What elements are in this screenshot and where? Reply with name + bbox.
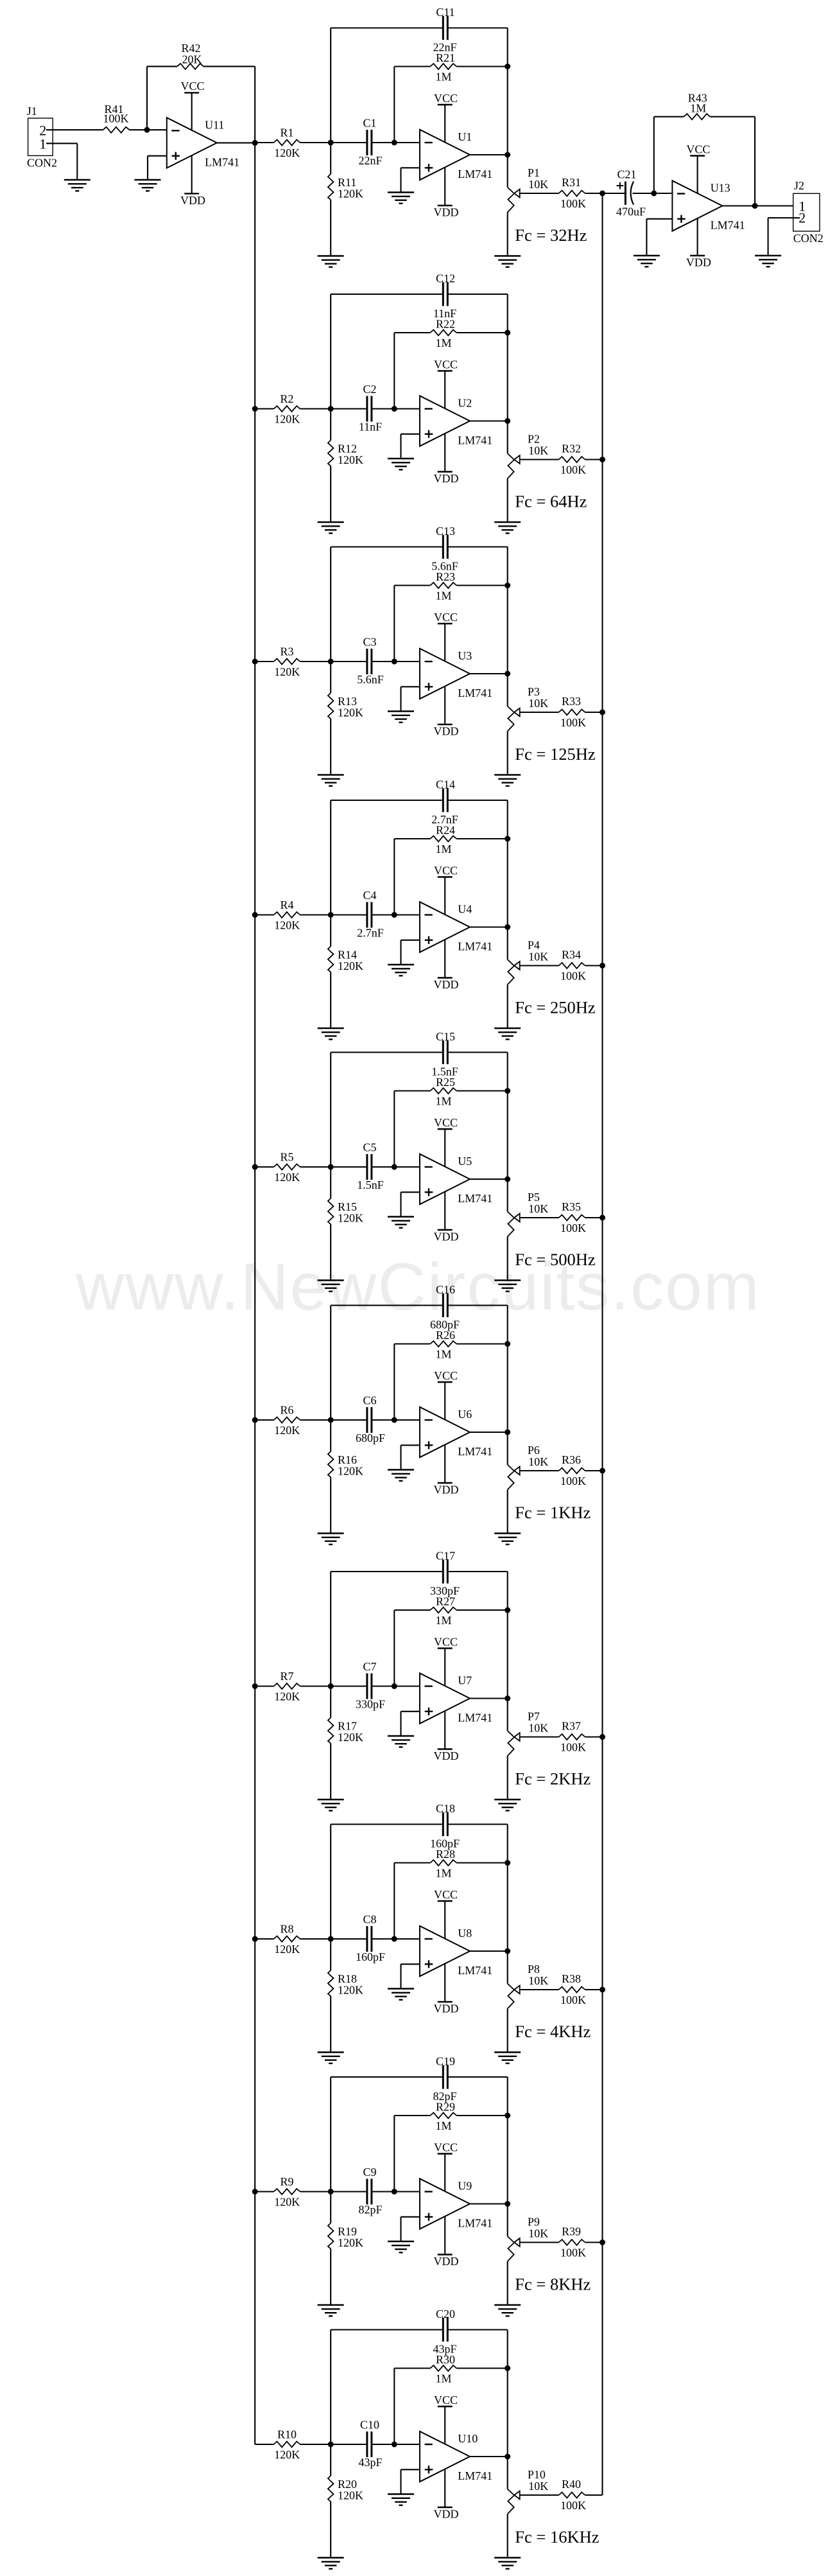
resistor R35 100K: [559, 1200, 587, 1234]
wire wiper row: [520, 2494, 603, 2496]
svg-text:10K: 10K: [528, 2227, 548, 2240]
VCC symbol: [434, 1116, 458, 1167]
node band 7 output: [505, 1695, 510, 1701]
wire band 6 input row: [255, 1419, 420, 1421]
svg-text:R36: R36: [562, 1453, 581, 1466]
svg-text:C17: C17: [436, 1550, 455, 1563]
VCC symbol: [434, 358, 458, 408]
wire left distribution bus: [254, 143, 255, 2444]
wire output: [470, 673, 508, 674]
svg-text:LM741: LM741: [458, 687, 492, 699]
ground (R17): [318, 1800, 344, 1810]
svg-text:VDD: VDD: [434, 1484, 459, 1496]
op-amp U6: [420, 1407, 492, 1458]
potentiometer P7 10K: [508, 1699, 549, 1800]
svg-text:VDD: VDD: [434, 472, 459, 485]
capacitor C19 82pF: [433, 2055, 456, 2103]
svg-text:100K: 100K: [560, 970, 586, 983]
resistor R38 100K: [559, 1972, 587, 2006]
resistor R11 120K: [328, 143, 363, 256]
svg-text:C18: C18: [436, 1802, 455, 1815]
connector J2: [793, 179, 824, 245]
svg-text:120K: 120K: [338, 1212, 363, 1225]
node band 10 inverting input: [392, 2442, 397, 2448]
node left bus tap band 3: [252, 659, 258, 665]
wire R42 feedback loop: [147, 66, 255, 143]
svg-text:1M: 1M: [435, 1095, 451, 1108]
svg-text:1M: 1M: [435, 1348, 451, 1361]
resistor R42 20K: [177, 42, 203, 69]
VCC symbol: [434, 2141, 458, 2191]
svg-text:1M: 1M: [435, 590, 451, 602]
op-amp U10: [420, 2431, 492, 2482]
node band 7 inverting input: [392, 1683, 397, 1689]
svg-text:330pF: 330pF: [356, 1698, 385, 1711]
svg-text:5.6nF: 5.6nF: [357, 673, 384, 686]
resistor R7 120K: [274, 1670, 300, 1703]
ground (U8 + input): [388, 1989, 414, 2000]
ground (R19): [318, 2305, 344, 2316]
resistor R39 100K: [559, 2225, 587, 2259]
wire right summing bus: [601, 193, 603, 2495]
resistor R26 1M: [430, 1329, 456, 1361]
svg-text:100K: 100K: [560, 1993, 586, 2006]
svg-text:U2: U2: [458, 397, 472, 410]
wire inverting node to feedback row: [393, 2369, 395, 2445]
wire wiper row: [520, 1470, 603, 1471]
ground (P7): [494, 1800, 521, 1810]
capacitor C7 330pF: [356, 1660, 385, 1711]
wire loop top: [331, 2330, 508, 2457]
connector J1: [27, 105, 57, 170]
wire output: [470, 1950, 508, 1952]
svg-text:VDD: VDD: [434, 1749, 459, 1762]
ground (J1): [64, 180, 91, 191]
svg-text:VCC: VCC: [180, 80, 204, 92]
svg-text:VCC: VCC: [434, 1888, 458, 1901]
svg-text:R37: R37: [562, 1720, 581, 1733]
svg-text:LM741: LM741: [458, 168, 492, 180]
svg-text:R6: R6: [280, 1404, 293, 1417]
wire inverting node to feedback row: [393, 333, 395, 409]
node band 5 output: [505, 1177, 510, 1182]
svg-text:100K: 100K: [560, 716, 586, 729]
svg-text:C1: C1: [363, 117, 376, 130]
node band 10 input junction: [328, 2442, 334, 2448]
svg-text:10K: 10K: [528, 2480, 548, 2493]
svg-text:U1: U1: [458, 130, 472, 143]
capacitor C1 22nF: [358, 117, 382, 168]
ground (P8): [494, 2053, 521, 2063]
potentiometer P5 10K: [508, 1179, 549, 1281]
node left bus tap band 7: [252, 1683, 258, 1689]
wire output: [470, 1697, 508, 1699]
ground (U7 + input): [388, 1736, 414, 1747]
node summing bus junction 7: [600, 1734, 605, 1740]
ground (P9): [494, 2305, 521, 2316]
node feedback right: [505, 1088, 510, 1094]
svg-text:C10: C10: [360, 2419, 379, 2431]
svg-text:43pF: 43pF: [358, 2456, 382, 2469]
wire band 10 input row: [255, 2444, 420, 2445]
node band 7 input junction: [328, 1683, 334, 1689]
svg-text:U9: U9: [458, 2180, 472, 2193]
node feedback right: [505, 1608, 510, 1613]
svg-text:VDD: VDD: [434, 1231, 459, 1243]
svg-text:P9: P9: [528, 2216, 540, 2229]
VDD symbol: [434, 434, 459, 485]
wire R41 to U11: [130, 129, 167, 130]
potentiometer P6 10K: [508, 1432, 549, 1534]
svg-text:100K: 100K: [560, 464, 586, 477]
svg-text:22nF: 22nF: [358, 154, 382, 167]
wire feedback row: [394, 2367, 507, 2369]
svg-text:J1: J1: [27, 105, 37, 118]
node band 3 inverting input: [392, 659, 397, 665]
wire wiper row: [520, 712, 603, 713]
svg-text:P4: P4: [528, 939, 540, 952]
wire U11 output: [217, 142, 255, 143]
svg-text:2.7nF: 2.7nF: [357, 927, 384, 940]
resistor R40 100K: [559, 2478, 587, 2512]
capacitor C11 22nF: [433, 6, 456, 54]
resistor R21 1M: [430, 51, 456, 83]
capacitor C6 680pF: [356, 1394, 385, 1445]
wire band 2 input row: [255, 408, 420, 409]
svg-text:R8: R8: [280, 1923, 293, 1936]
wire C21 to U13: [654, 193, 673, 194]
svg-text:Fc = 16KHz: Fc = 16KHz: [515, 2527, 599, 2546]
wire inverting node to feedback row: [393, 586, 395, 662]
capacitor C8 160pF: [356, 1913, 385, 1964]
node feedback right: [505, 583, 510, 588]
svg-text:C6: C6: [363, 1394, 376, 1407]
svg-text:11nF: 11nF: [433, 307, 456, 320]
svg-text:VDD: VDD: [434, 978, 459, 991]
node band 3 output: [505, 671, 510, 677]
svg-text:120K: 120K: [274, 1424, 300, 1437]
svg-text:C20: C20: [436, 2308, 455, 2320]
wire non-inverting input to ground: [401, 1964, 420, 1988]
svg-text:82pF: 82pF: [358, 2204, 382, 2216]
VCC symbol: [434, 611, 458, 662]
potentiometer P4 10K: [508, 927, 549, 1029]
op-amp U7: [420, 1673, 492, 1724]
svg-text:680pF: 680pF: [356, 1432, 385, 1444]
potentiometer P10 10K: [508, 2457, 549, 2558]
svg-text:R39: R39: [562, 2225, 581, 2238]
resistor R34 100K: [559, 949, 587, 983]
capacitor C9 82pF: [358, 2166, 382, 2216]
svg-text:120K: 120K: [274, 919, 300, 932]
svg-text:1M: 1M: [690, 102, 706, 115]
wire wiper row: [520, 2241, 603, 2243]
ground (R15): [318, 1281, 344, 1292]
svg-text:LM741: LM741: [711, 219, 745, 232]
node feedback right: [505, 1341, 510, 1347]
wire feedback row: [394, 838, 507, 839]
svg-text:C14: C14: [436, 778, 455, 791]
op-amp U13: [672, 180, 745, 231]
node feedback right: [505, 330, 510, 336]
resistor R27 1M: [430, 1595, 456, 1627]
wire wiper row: [520, 1989, 603, 1990]
resistor R41 100K: [103, 103, 130, 133]
wire non-inverting input to ground: [401, 2469, 420, 2494]
svg-text:2.7nF: 2.7nF: [431, 813, 458, 826]
svg-text:120K: 120K: [274, 146, 300, 159]
node band 8 output: [505, 1949, 510, 1954]
svg-text:120K: 120K: [338, 706, 363, 719]
node band 1 inverting input: [392, 140, 397, 146]
svg-text:120K: 120K: [338, 1731, 363, 1744]
svg-text:R40: R40: [562, 2478, 581, 2491]
op-amp U9: [420, 2178, 492, 2229]
svg-text:U5: U5: [458, 1155, 472, 1168]
potentiometer P8 10K: [508, 1951, 549, 2053]
svg-text:10K: 10K: [528, 951, 548, 963]
svg-text:R2: R2: [280, 392, 293, 405]
wire wiper row: [520, 193, 603, 194]
wire loop top: [331, 547, 508, 674]
VCC symbol: [434, 1369, 458, 1420]
svg-text:470uF: 470uF: [616, 206, 646, 218]
svg-text:C11: C11: [436, 6, 454, 19]
svg-text:1M: 1M: [435, 71, 451, 83]
node band 9 output: [505, 2201, 510, 2207]
svg-text:100K: 100K: [560, 1222, 586, 1234]
wire U11 non-inverting input to ground: [148, 156, 167, 180]
node summing bus junction 1: [600, 191, 605, 197]
svg-text:LM741: LM741: [205, 156, 239, 169]
svg-text:C7: C7: [363, 1660, 376, 1673]
svg-text:160pF: 160pF: [356, 1950, 385, 1963]
svg-text:U4: U4: [458, 903, 472, 916]
ground (U1 + input): [388, 193, 414, 204]
svg-text:10K: 10K: [528, 1974, 548, 1987]
resistor R33 100K: [559, 695, 587, 729]
svg-text:U3: U3: [458, 649, 472, 662]
VDD symbol (U13): [686, 218, 711, 269]
wire inverting node to feedback row: [393, 1610, 395, 1687]
ground (P10): [494, 2558, 521, 2569]
svg-text:R3: R3: [280, 645, 293, 658]
svg-text:Fc = 2KHz: Fc = 2KHz: [515, 1769, 591, 1788]
wire non-inverting input to ground: [401, 1192, 420, 1216]
wire loop top: [331, 2077, 508, 2204]
node U13 output: [752, 203, 758, 209]
capacitor C14 2.7nF: [431, 778, 458, 827]
svg-text:R10: R10: [277, 2428, 297, 2441]
svg-text:1M: 1M: [435, 2372, 451, 2385]
wire J1 pin 1 to ground: [46, 143, 77, 180]
ground (U4 + input): [388, 965, 414, 976]
VDD symbol: [434, 168, 459, 219]
wire loop top: [331, 1572, 508, 1699]
svg-text:5.6nF: 5.6nF: [431, 560, 458, 573]
svg-text:U10: U10: [458, 2432, 478, 2445]
resistor R13 120K: [328, 662, 363, 775]
potentiometer P3 10K: [508, 674, 549, 775]
wire feedback row: [394, 1609, 507, 1611]
ground (U2 + input): [388, 459, 414, 469]
svg-text:VCC: VCC: [434, 92, 458, 105]
VDD symbol: [434, 2216, 459, 2268]
VCC symbol (U11): [180, 80, 204, 130]
svg-text:R31: R31: [562, 176, 581, 189]
svg-text:U8: U8: [458, 1927, 472, 1940]
svg-text:LM741: LM741: [458, 1964, 492, 1977]
svg-text:VDD: VDD: [434, 206, 459, 219]
svg-text:C19: C19: [436, 2055, 455, 2068]
svg-text:C4: C4: [363, 889, 376, 902]
ground (P4): [494, 1028, 521, 1039]
wire non-inverting input to ground: [401, 940, 420, 965]
ground (R14): [318, 1028, 344, 1039]
wire feedback row: [394, 66, 507, 67]
VDD symbol: [434, 1445, 459, 1496]
svg-text:LM741: LM741: [458, 1192, 492, 1205]
svg-text:VCC: VCC: [434, 1116, 458, 1129]
svg-text:Fc = 125Hz: Fc = 125Hz: [515, 744, 596, 764]
op-amp U11: [167, 118, 239, 168]
resistor R19 120K: [328, 2192, 363, 2306]
svg-text:C16: C16: [436, 1283, 455, 1296]
svg-text:LM741: LM741: [458, 2217, 492, 2230]
resistor R22 1M: [430, 318, 456, 350]
node band 9 input junction: [328, 2189, 334, 2195]
svg-text:120K: 120K: [274, 1690, 300, 1703]
ground (U11 + input): [135, 180, 161, 191]
op-amp U3: [420, 649, 492, 699]
svg-text:R5: R5: [280, 1151, 293, 1164]
svg-text:120K: 120K: [338, 188, 363, 200]
capacitor C2 11nF: [359, 383, 382, 434]
node summing bus junction 2: [600, 457, 605, 462]
op-amp U1: [420, 130, 492, 180]
node feedback right: [505, 2113, 510, 2119]
ground (P2): [494, 522, 521, 533]
svg-text:R34: R34: [562, 949, 581, 961]
capacitor C21 470uF: [603, 168, 654, 218]
svg-text:C9: C9: [363, 2166, 376, 2178]
wire J2 pin 2 to ground: [768, 218, 800, 256]
wire loop top: [331, 294, 508, 421]
svg-text:VCC: VCC: [434, 2141, 458, 2153]
resistor R43 1M: [684, 92, 710, 120]
svg-text:120K: 120K: [274, 1171, 300, 1184]
wire output: [470, 926, 508, 927]
ground (U3 + input): [388, 712, 414, 723]
wire band 8 input row: [255, 1938, 420, 1940]
svg-text:120K: 120K: [274, 2448, 300, 2461]
ground (U10 + input): [388, 2494, 414, 2505]
node band 10 output: [505, 2454, 510, 2460]
svg-text:VDD: VDD: [434, 725, 459, 738]
capacitor C16 680pF: [430, 1283, 460, 1331]
svg-text:C5: C5: [363, 1141, 376, 1154]
node band 4 output: [505, 924, 510, 930]
svg-text:P2: P2: [528, 433, 540, 446]
svg-text:VCC: VCC: [434, 1635, 458, 1648]
node band 6 input junction: [328, 1417, 334, 1423]
VDD symbol: [434, 687, 459, 738]
svg-text:1M: 1M: [435, 1614, 451, 1627]
capacitor C12 11nF: [433, 272, 456, 320]
wire inverting node to feedback row: [393, 1344, 395, 1421]
svg-text:1M: 1M: [435, 337, 451, 349]
svg-text:R9: R9: [280, 2175, 293, 2188]
svg-text:120K: 120K: [274, 665, 300, 678]
svg-text:100K: 100K: [560, 1741, 586, 1754]
svg-text:120K: 120K: [338, 453, 363, 466]
resistor R6 120K: [274, 1404, 300, 1437]
wire R43 feedback loop: [654, 117, 755, 206]
ground (J2): [755, 256, 781, 267]
wire inverting node to feedback row: [393, 1091, 395, 1168]
ground (R20): [318, 2558, 344, 2569]
svg-text:VCC: VCC: [434, 611, 458, 624]
node band 8 inverting input: [392, 1936, 397, 1942]
wire feedback row: [394, 1343, 507, 1344]
svg-text:LM741: LM741: [458, 2469, 492, 2482]
svg-text:R4: R4: [280, 898, 293, 911]
svg-text:1M: 1M: [435, 1867, 451, 1880]
node summing bus junction 8: [600, 1987, 605, 1993]
node band 2 input junction: [328, 406, 334, 412]
ground (R18): [318, 2053, 344, 2063]
wire non-inverting input to ground: [401, 168, 420, 192]
node band 1 output: [505, 152, 510, 158]
svg-text:Fc = 8KHz: Fc = 8KHz: [515, 2274, 591, 2293]
resistor R12 120K: [328, 409, 363, 523]
wire band 9 input row: [255, 2191, 420, 2192]
wire wiper row: [520, 1736, 603, 1737]
svg-text:LM741: LM741: [458, 1445, 492, 1458]
node left bus tap band 6: [252, 1417, 258, 1423]
svg-text:10K: 10K: [528, 697, 548, 710]
wire loop top: [331, 800, 508, 927]
resistor R1 120K: [274, 127, 300, 160]
node left bus tap band 5: [252, 1164, 258, 1170]
svg-text:Fc = 1KHz: Fc = 1KHz: [515, 1503, 591, 1522]
node band 2 output: [505, 418, 510, 424]
resistor R14 120K: [328, 915, 363, 1029]
svg-text:R35: R35: [562, 1200, 581, 1213]
capacitor C4 2.7nF: [357, 889, 384, 940]
resistor R29 1M: [430, 2101, 456, 2133]
svg-text:P6: P6: [528, 1444, 540, 1457]
op-amp U5: [420, 1154, 492, 1205]
wire wiper row: [520, 965, 603, 966]
resistor R20 120K: [328, 2444, 363, 2558]
ground (R12): [318, 522, 344, 533]
svg-text:VCC: VCC: [434, 2394, 458, 2406]
capacitor C18 160pF: [430, 1802, 460, 1850]
svg-text:R32: R32: [562, 442, 581, 455]
svg-text:VCC: VCC: [434, 1369, 458, 1382]
wire band 7 input row: [255, 1685, 420, 1687]
svg-text:P7: P7: [528, 1710, 540, 1723]
resistor R37 100K: [559, 1720, 587, 1754]
node summing bus junction 9: [600, 2239, 605, 2245]
node band 6 output: [505, 1430, 510, 1435]
capacitor C13 5.6nF: [431, 525, 458, 573]
svg-text:VDD: VDD: [434, 2508, 459, 2521]
svg-text:680pF: 680pF: [430, 1319, 460, 1331]
VCC symbol: [434, 2394, 458, 2444]
wire band 3 input row: [255, 661, 420, 662]
